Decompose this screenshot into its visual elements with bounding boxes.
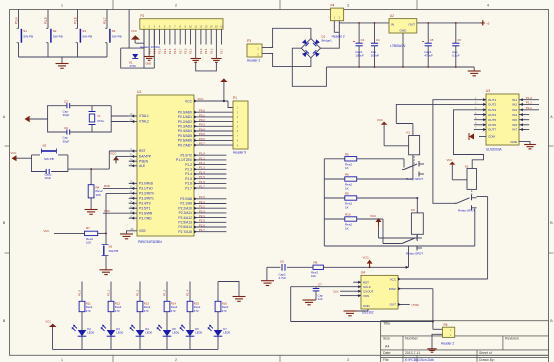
svg-text:VCC: VCC <box>11 151 17 155</box>
svg-text:P3.2/INT0: P3.2/INT0 <box>139 192 154 196</box>
svg-text:P1.0: P1.0 <box>526 96 532 100</box>
svg-text:P2.5: P2.5 <box>168 48 172 54</box>
svg-text:R9: R9 <box>345 192 349 196</box>
svg-text:P2.0: P2.0 <box>199 195 205 199</box>
svg-text:470: 470 <box>144 309 149 313</box>
svg-text:P1.7: P1.7 <box>199 185 205 189</box>
svg-text:R7: R7 <box>86 226 90 230</box>
svg-text:GND: GND <box>363 304 371 308</box>
svg-text:P6: P6 <box>444 323 448 327</box>
svg-text:OUT1: OUT1 <box>488 98 496 102</box>
svg-text:P0.0/AD0: P0.0/AD0 <box>178 110 192 114</box>
svg-text:DISC: DISC <box>389 287 397 291</box>
svg-text:R5: R5 <box>345 152 349 156</box>
svg-text:IN3: IN3 <box>512 108 517 112</box>
svg-text:SW-PB: SW-PB <box>23 34 33 38</box>
svg-text:1K: 1K <box>345 186 349 190</box>
svg-text:2: 2 <box>175 358 177 362</box>
svg-text:S1: S1 <box>23 29 27 33</box>
svg-text:CVOUT: CVOUT <box>363 289 374 293</box>
svg-text:P1.7: P1.7 <box>103 17 107 24</box>
svg-text:OUT3: OUT3 <box>488 108 496 112</box>
svg-text:R10: R10 <box>345 213 351 217</box>
svg-text:CLK: CLK <box>333 289 339 293</box>
svg-text:Header 2: Header 2 <box>247 58 260 62</box>
svg-text:30pF: 30pF <box>63 139 70 143</box>
svg-text:Drawn By:: Drawn By: <box>479 358 495 362</box>
svg-text:1: 1 <box>61 4 63 8</box>
svg-text:470: 470 <box>115 309 120 313</box>
svg-text:GND: GND <box>146 63 152 66</box>
svg-text:P2.6: P2.6 <box>173 48 177 54</box>
svg-text:P2.5: P2.5 <box>199 219 205 223</box>
svg-text:VCC: VCC <box>390 277 397 281</box>
svg-text:P2.7/A15: P2.7/A15 <box>178 230 192 234</box>
svg-text:K2: K2 <box>465 164 469 168</box>
svg-text:VCC: VCC <box>198 97 204 101</box>
svg-text:1K: 1K <box>345 166 349 170</box>
svg-text:P2.3/A11: P2.3/A11 <box>179 211 192 215</box>
svg-text:VCC: VCC <box>363 255 370 259</box>
svg-text:0.1uF: 0.1uF <box>452 54 460 58</box>
svg-text:SW-PB: SW-PB <box>53 34 63 38</box>
svg-text:P4: P4 <box>331 3 335 7</box>
svg-text:COM: COM <box>488 135 496 139</box>
svg-text:VSS: VSS <box>139 229 146 233</box>
svg-text:S6: S6 <box>109 244 113 248</box>
svg-text:OUT5: OUT5 <box>488 118 496 122</box>
svg-text:P2.4: P2.4 <box>163 48 167 54</box>
svg-text:100: 100 <box>86 240 91 244</box>
svg-text:Y1: Y1 <box>97 114 101 118</box>
svg-text:VCC: VCC <box>370 214 377 218</box>
svg-text:470: 470 <box>86 309 91 313</box>
svg-text:IN5: IN5 <box>512 118 517 122</box>
svg-text:P2.3: P2.3 <box>199 209 205 213</box>
svg-text:10uF: 10uF <box>44 176 51 180</box>
svg-text:GND: GND <box>510 140 518 144</box>
svg-text:Revision: Revision <box>505 337 519 341</box>
svg-text:P1.4: P1.4 <box>199 170 205 174</box>
svg-text:P2.7: P2.7 <box>199 228 205 232</box>
svg-text:P2.3: P2.3 <box>199 48 203 54</box>
svg-text:XTAL1: XTAL1 <box>139 114 149 118</box>
svg-text:P1.4: P1.4 <box>185 172 192 176</box>
svg-text:P1.3: P1.3 <box>163 289 167 296</box>
svg-text:U3: U3 <box>486 89 490 93</box>
svg-text:Size: Size <box>383 337 390 341</box>
svg-text:S2: S2 <box>53 29 57 33</box>
svg-text:L7805ACV: L7805ACV <box>390 44 406 48</box>
svg-text:P0.4: P0.4 <box>199 127 205 131</box>
svg-text:P1.5: P1.5 <box>44 17 48 24</box>
svg-text:P0.7: P0.7 <box>199 142 205 146</box>
svg-text:P1.5: P1.5 <box>185 177 192 181</box>
svg-text:P1.4: P1.4 <box>186 289 190 296</box>
svg-text:U4: U4 <box>361 271 365 275</box>
svg-text:C2: C2 <box>64 100 68 104</box>
svg-text:P2.6/A14: P2.6/A14 <box>178 225 192 229</box>
svg-text:P3.1/TxD: P3.1/TxD <box>139 187 153 191</box>
svg-text:P0.3/AD3: P0.3/AD3 <box>178 125 192 129</box>
svg-text:P0.1/AD1: P0.1/AD1 <box>178 115 192 119</box>
svg-text:U1: U1 <box>137 90 141 94</box>
svg-text:P2.4: P2.4 <box>199 214 205 218</box>
svg-text:C5: C5 <box>430 38 434 42</box>
svg-text:P1.2: P1.2 <box>136 289 140 296</box>
svg-text:2013-7-11: 2013-7-11 <box>405 351 420 355</box>
svg-text:P0.4/AD4: P0.4/AD4 <box>178 129 192 133</box>
svg-text:470K: 470K <box>130 64 137 68</box>
svg-text:P1.2: P1.2 <box>185 163 192 167</box>
svg-text:Bridge1: Bridge1 <box>322 39 333 43</box>
svg-text:P2.5/A13: P2.5/A13 <box>178 221 192 225</box>
svg-text:P3.5/T1: P3.5/T1 <box>139 206 151 210</box>
svg-text:C6: C6 <box>280 259 284 263</box>
svg-text:P2.1: P2.1 <box>189 48 193 54</box>
svg-text:IN6: IN6 <box>512 123 517 127</box>
svg-text:P1.1/T2EX: P1.1/T2EX <box>176 158 193 162</box>
svg-text:2: 2 <box>175 4 177 8</box>
svg-text:SW-PB: SW-PB <box>44 157 54 161</box>
svg-text:RST: RST <box>139 149 146 153</box>
svg-text:(TXD): (TXD) <box>412 303 420 307</box>
svg-text:30pF: 30pF <box>63 113 70 117</box>
svg-text:P0.5: P0.5 <box>199 132 205 136</box>
svg-text:S5: S5 <box>43 144 47 148</box>
svg-text:R6: R6 <box>345 173 349 177</box>
svg-text:VCC: VCC <box>46 320 52 324</box>
svg-text:ULN2003A: ULN2003A <box>486 147 502 151</box>
svg-text:Header 9: Header 9 <box>233 150 246 154</box>
svg-text:P3.6/WR: P3.6/WR <box>139 211 153 215</box>
svg-text:P1.0: P1.0 <box>199 152 205 156</box>
svg-text:100uF: 100uF <box>355 54 364 58</box>
svg-text:10k: 10k <box>311 274 316 278</box>
svg-text:VSS: VSS <box>363 294 369 298</box>
svg-text:EA/VPP: EA/VPP <box>139 155 152 159</box>
svg-text:470: 470 <box>171 309 176 313</box>
svg-text:P2.2/A10: P2.2/A10 <box>178 206 192 210</box>
svg-text:P2.1/A9: P2.1/A9 <box>180 202 192 206</box>
svg-text:P2.0: P2.0 <box>183 48 187 54</box>
svg-text:P0.2/AD2: P0.2/AD2 <box>178 120 192 124</box>
svg-text:3: 3 <box>347 4 349 8</box>
svg-text:S3: S3 <box>82 29 86 33</box>
svg-text:P3.4/T0: P3.4/T0 <box>139 201 151 205</box>
svg-text:P1.5: P1.5 <box>199 175 205 179</box>
svg-text:+5: +5 <box>486 21 490 25</box>
svg-text:LED0: LED0 <box>116 331 123 335</box>
svg-text:OUT: OUT <box>408 23 415 27</box>
svg-text:IN: IN <box>391 23 394 27</box>
svg-text:1K: 1K <box>345 205 349 209</box>
svg-text:P1.3: P1.3 <box>185 168 192 172</box>
svg-text:P2.4/A12: P2.4/A12 <box>178 216 192 220</box>
svg-text:P3.3/INT1: P3.3/INT1 <box>139 196 154 200</box>
svg-text:IN1: IN1 <box>512 98 517 102</box>
svg-text:4.7uF: 4.7uF <box>279 276 287 280</box>
svg-text:SW-PB: SW-PB <box>82 34 92 38</box>
svg-text:P0.0: P0.0 <box>199 109 205 113</box>
svg-text:Relay-SPDT: Relay-SPDT <box>458 208 475 212</box>
svg-text:P2.7: P2.7 <box>178 48 182 54</box>
svg-text:C3: C3 <box>64 126 68 130</box>
svg-text:P1: P1 <box>233 96 237 100</box>
svg-text:VCC: VCC <box>447 158 453 162</box>
svg-text:R8: R8 <box>314 260 318 264</box>
svg-text:VCC: VCC <box>185 99 193 103</box>
svg-text:VCC: VCC <box>44 229 50 233</box>
svg-text:OUT4: OUT4 <box>488 113 496 117</box>
svg-text:470: 470 <box>222 309 227 313</box>
svg-text:P3.0/RxD: P3.0/RxD <box>139 182 154 186</box>
svg-text:P0.6/AD6: P0.6/AD6 <box>178 139 192 143</box>
svg-text:P0.7/AD7: P0.7/AD7 <box>178 143 192 147</box>
svg-text:P2.7: P2.7 <box>220 48 224 54</box>
svg-text:P3.7/RD: P3.7/RD <box>139 216 152 220</box>
svg-text:SCLK: SCLK <box>363 285 371 289</box>
svg-text:E:\PCB51\Sch.Ddb: E:\PCB51\Sch.Ddb <box>405 358 434 362</box>
svg-text:C4: C4 <box>376 38 380 42</box>
svg-text:PSEN: PSEN <box>139 159 149 163</box>
svg-text:OUT6: OUT6 <box>488 123 496 127</box>
svg-text:C3: C3 <box>361 38 365 42</box>
svg-text:P0.5/AD5: P0.5/AD5 <box>178 134 192 138</box>
svg-text:P2.2: P2.2 <box>199 205 205 209</box>
svg-text:VCC: VCC <box>131 29 137 33</box>
svg-text:IN7: IN7 <box>512 128 517 132</box>
svg-text:P2: P2 <box>140 14 144 18</box>
svg-text:1K: 1K <box>345 226 349 230</box>
svg-text:P1.0/T2: P1.0/T2 <box>180 153 192 157</box>
svg-text:1: 1 <box>61 358 63 362</box>
svg-text:IN2: IN2 <box>512 103 517 107</box>
svg-text:C6: C6 <box>457 38 461 42</box>
svg-text:3: 3 <box>347 358 349 362</box>
svg-text:P2.5: P2.5 <box>209 48 213 54</box>
svg-text:ALE: ALE <box>139 164 146 168</box>
svg-text:S4: S4 <box>112 29 116 33</box>
svg-text:P1.0: P1.0 <box>78 289 82 296</box>
svg-text:VCC: VCC <box>110 152 117 156</box>
svg-text:P2.0/A8: P2.0/A8 <box>180 197 192 201</box>
svg-text:P1.6: P1.6 <box>185 182 192 186</box>
svg-text:LED0: LED0 <box>223 331 230 335</box>
svg-text:P1.4: P1.4 <box>14 17 18 24</box>
svg-text:Sheet of: Sheet of <box>479 351 492 355</box>
svg-text:100nF: 100nF <box>371 54 380 58</box>
svg-text:Header 16X2H: Header 16X2H <box>140 45 160 49</box>
svg-text:P1.2: P1.2 <box>526 106 532 110</box>
svg-text:P1.7: P1.7 <box>185 186 192 190</box>
svg-text:P2.6: P2.6 <box>199 223 205 227</box>
svg-text:P1.1: P1.1 <box>526 101 532 105</box>
svg-text:P1.1: P1.1 <box>107 289 111 296</box>
svg-text:C7: C7 <box>318 282 322 286</box>
svg-text:P2.3: P2.3 <box>158 48 162 54</box>
svg-text:TXD: TXD <box>104 209 110 213</box>
svg-text:P0.3: P0.3 <box>199 123 205 127</box>
svg-text:P3: P3 <box>247 39 251 43</box>
svg-text:SW-PB: SW-PB <box>112 34 122 38</box>
svg-text:P0.6: P0.6 <box>199 137 205 141</box>
svg-text:P1.3: P1.3 <box>199 166 205 170</box>
svg-text:P1.1: P1.1 <box>199 156 205 160</box>
svg-text:P2.1: P2.1 <box>199 200 205 204</box>
svg-text:P2.2: P2.2 <box>152 48 156 54</box>
svg-text:4: 4 <box>487 4 489 8</box>
svg-text:P0.1: P0.1 <box>199 113 205 117</box>
svg-text:K1: K1 <box>407 131 411 135</box>
svg-text:U2: U2 <box>390 14 394 18</box>
svg-text:LED0: LED0 <box>87 331 94 335</box>
svg-text:P2.4: P2.4 <box>204 48 208 54</box>
svg-text:A4: A4 <box>385 344 389 348</box>
svg-text:RXD: RXD <box>104 184 110 188</box>
svg-text:10K: 10K <box>96 193 101 197</box>
svg-text:P1.6: P1.6 <box>199 180 205 184</box>
svg-text:470: 470 <box>194 309 199 313</box>
svg-text:Header 2: Header 2 <box>441 342 454 346</box>
svg-text:P1.6: P1.6 <box>73 17 77 24</box>
svg-text:LED0: LED0 <box>172 331 179 335</box>
svg-text:GND: GND <box>399 29 407 33</box>
svg-text:P89C51RD2BN: P89C51RD2BN <box>138 240 162 244</box>
svg-text:VCC: VCC <box>377 118 383 122</box>
svg-text:OUT: OUT <box>390 303 397 307</box>
svg-text:File:: File: <box>383 358 389 362</box>
svg-text:1uF: 1uF <box>318 297 323 301</box>
svg-text:470uF: 470uF <box>424 54 433 58</box>
svg-text:OUT7: OUT7 <box>488 128 496 132</box>
svg-text:IN4: IN4 <box>512 113 517 117</box>
svg-text:P1.2: P1.2 <box>199 161 205 165</box>
svg-text:Date:: Date: <box>383 351 391 355</box>
svg-text:Number: Number <box>405 337 419 341</box>
svg-text:RST: RST <box>363 280 369 284</box>
svg-text:K3: K3 <box>411 208 415 212</box>
svg-text:P0.2: P0.2 <box>199 118 205 122</box>
svg-text:LED0: LED0 <box>195 331 202 335</box>
svg-text:Header 2: Header 2 <box>332 34 345 38</box>
svg-text:LED0: LED0 <box>145 331 152 335</box>
svg-text:OUT2: OUT2 <box>488 103 496 107</box>
svg-text:SW-PB: SW-PB <box>109 249 119 253</box>
svg-text:XTAL2: XTAL2 <box>139 120 149 124</box>
svg-text:XTAL: XTAL <box>97 119 105 123</box>
